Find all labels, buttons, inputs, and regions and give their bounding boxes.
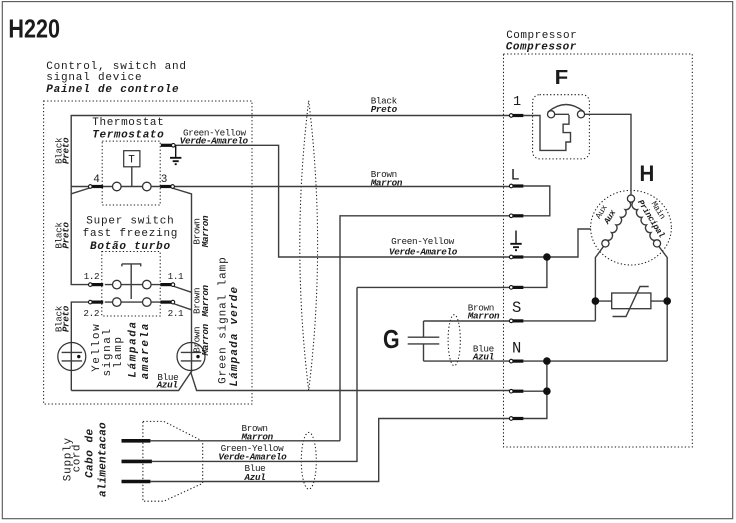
wire: super switch actuator — [122, 264, 141, 299]
svg-text:H220: H220 — [8, 15, 60, 43]
green signal lamp — [177, 343, 205, 371]
switch row2 contact circles — [113, 298, 122, 307]
compressor edge connector L — [509, 184, 523, 188]
svg-text:Yellow: Yellow — [91, 323, 103, 372]
connector 2.1 — [160, 300, 174, 304]
wire: relay contact arc — [548, 105, 584, 113]
svg-text:2.1: 2.1 — [168, 308, 184, 319]
svg-text:L: L — [511, 167, 520, 185]
svg-text:Marron: Marron — [241, 432, 274, 443]
relay F contact circles — [548, 111, 555, 118]
ground symbol at thermostat — [175, 145, 177, 157]
supply cord dashed ellipse sleeve — [301, 432, 316, 489]
compressor dashed box — [504, 54, 693, 447]
thermostat T box — [124, 151, 140, 167]
wire: aux tail down to S node — [523, 246, 603, 321]
winding main — [632, 202, 656, 240]
junction dot N — [543, 357, 551, 365]
harness lens (panel to compressor bundle) — [300, 101, 318, 391]
svg-text:G: G — [383, 326, 400, 354]
wire: switch row 1 stubs — [105, 284, 161, 286]
svg-text:Green signal lamp: Green signal lamp — [218, 256, 230, 384]
compressor edge connector L2 — [509, 214, 523, 218]
wire: terminal 4 fork diagonal — [71, 187, 89, 194]
svg-text:amarela: amarela — [140, 322, 152, 379]
motor H dashed circle (shell) — [591, 190, 672, 265]
svg-text:Preto: Preto — [61, 305, 72, 332]
svg-text:cord: cord — [72, 444, 84, 472]
svg-text:alimentacao: alimentacao — [98, 422, 110, 497]
supply cord stub brown — [122, 439, 151, 443]
compressor edge connector N2 — [509, 389, 523, 393]
svg-text:H: H — [640, 161, 655, 186]
wire: thermostat actuator stem — [131, 167, 133, 187]
svg-text:4: 4 — [93, 174, 100, 186]
svg-text:N: N — [512, 339, 521, 357]
svg-text:Green-Yellow: Green-Yellow — [391, 236, 455, 247]
svg-text:fast freezing: fast freezing — [83, 228, 179, 240]
connector green-yellow earth (panel) — [161, 144, 175, 148]
capacitor plates — [408, 337, 440, 344]
wire: supply brown — [150, 440, 340, 442]
svg-text:Verde-Amarelo: Verde-Amarelo — [180, 136, 249, 147]
ground symbol at compressor earth — [515, 231, 517, 244]
svg-text:1.2: 1.2 — [84, 271, 100, 282]
wire: earth2 connector loop up — [523, 257, 547, 287]
svg-text:Lámpada verde: Lámpada verde — [229, 286, 241, 387]
wire: earth junction to shell — [523, 229, 590, 257]
svg-text:Compressor: Compressor — [506, 41, 577, 53]
svg-text:Thermostat: Thermostat — [92, 117, 164, 129]
control panel dashed box — [44, 101, 252, 404]
svg-text:Lámpada: Lámpada — [128, 320, 140, 377]
thermostat dashed box — [102, 141, 160, 205]
wire: N chain down to supply blue terminal — [523, 361, 547, 418]
motor terminal circles — [627, 195, 634, 202]
svg-text:Compressor: Compressor — [506, 30, 577, 42]
svg-text:F: F — [555, 66, 569, 89]
wire: thermostat switch row (terminal 4 to terminal 3 to L) — [103, 186, 510, 188]
svg-text:1.1: 1.1 — [168, 271, 184, 282]
overload protector — [612, 293, 651, 309]
svg-text:Verde-Amarelo: Verde-Amarelo — [218, 452, 287, 463]
supply cord dashed funnel — [143, 421, 203, 501]
svg-text:Azul: Azul — [156, 380, 178, 391]
relay F dashed box — [533, 95, 590, 159]
svg-text:S: S — [512, 299, 521, 317]
wire: terminal 3 fork + brown vertical to lamps — [172, 188, 192, 373]
svg-text:Termostato: Termostato — [92, 130, 164, 142]
junction dot protector right — [663, 297, 671, 305]
svg-text:Marron: Marron — [370, 178, 403, 189]
wire: main tail down to N wire — [523, 246, 667, 361]
compressor edge connector S — [509, 319, 523, 323]
winding label: Main / Principal — [649, 200, 668, 222]
vertical label: green signal lamp — [218, 256, 230, 384]
compressor edge connector earth2 — [509, 286, 523, 290]
wire: supply blue up to bottom compressor terminal — [150, 419, 509, 482]
compressor edge connector N — [509, 359, 523, 363]
svg-text:Preto: Preto — [61, 137, 72, 164]
connector 1.1 — [160, 283, 174, 287]
vertical label: black/preto 2 — [54, 222, 65, 249]
compressor edge connector earth — [509, 255, 523, 259]
svg-text:Painel de controle: Painel de controle — [46, 84, 179, 96]
vertical label: brown/marron 1 — [192, 218, 203, 244]
compressor edge connector blue-supply — [509, 417, 523, 421]
wire: supply green-yellow up to earth2 — [152, 287, 510, 461]
thermostat contact circles — [113, 182, 122, 191]
svg-text:Botão turbo: Botão turbo — [90, 241, 171, 253]
super switch dashed box — [102, 252, 160, 317]
wire: green-yellow from thermostat to compressor earth — [175, 145, 510, 257]
vertical label: black/preto 3 — [54, 305, 65, 332]
svg-text:Preto: Preto — [61, 222, 72, 249]
connector terminal 4 — [89, 185, 104, 189]
svg-text:3: 3 — [161, 174, 168, 186]
svg-text:1: 1 — [513, 95, 521, 110]
wire: switch row 2 stubs + black wire to yellow lamp — [71, 302, 160, 390]
vertical label: supply cord — [62, 437, 74, 481]
svg-text:Preto: Preto — [371, 104, 398, 115]
vertical label: black/preto 1 — [54, 137, 65, 164]
svg-text:Super switch: Super switch — [86, 216, 174, 228]
svg-text:Azul: Azul — [244, 472, 266, 483]
svg-text:Marron: Marron — [200, 215, 211, 248]
wire: protector links — [595, 300, 667, 302]
wire: capacitor G to S and N — [424, 321, 510, 361]
svg-text:Cabo de: Cabo de — [85, 428, 97, 478]
connector 2.2 — [89, 300, 104, 304]
winding aux — [607, 202, 631, 240]
supply cord stub blue — [122, 480, 151, 484]
svg-text:lamp: lamp — [113, 335, 125, 368]
junction dot earth — [543, 253, 551, 261]
switch row1 contact circles — [113, 280, 122, 289]
vertical label: brown/marron 3 — [192, 327, 203, 353]
svg-text:Verde-Amarelo: Verde-Amarelo — [389, 246, 458, 257]
svg-text:T: T — [128, 155, 135, 167]
connector 1.2 — [89, 283, 104, 287]
svg-text:signal device: signal device — [46, 72, 142, 84]
supply cord stub green-yellow — [122, 460, 152, 464]
svg-text:Azul: Azul — [472, 352, 494, 363]
capacitor G dashed ellipse sleeve — [448, 315, 460, 366]
connector terminal 3 — [160, 185, 174, 189]
wire: relay to motor common — [585, 114, 631, 195]
wire: black net top (thermostat frame top + left vertical) — [71, 116, 510, 285]
svg-text:2.2: 2.2 — [83, 308, 99, 319]
svg-text:Marron: Marron — [200, 323, 211, 356]
wire: brown L loop into compressor and back to supply — [340, 186, 550, 441]
yellow signal lamp — [58, 343, 86, 371]
vertical label: yellow signal lamp — [91, 323, 103, 372]
wire: terminal 1 into relay F with heater staircase — [523, 114, 570, 150]
compressor edge connector 1 — [509, 114, 523, 118]
junction dot protector left — [592, 297, 600, 305]
vertical label: brown/marron 2 — [192, 288, 203, 314]
winding label: Aux — [594, 203, 610, 221]
svg-text:Marron: Marron — [467, 311, 500, 322]
wire: blue lamp wire to N2 with green lamp fork — [71, 372, 509, 390]
svg-text:Marron: Marron — [200, 284, 211, 317]
junction dot N2 — [543, 387, 551, 395]
